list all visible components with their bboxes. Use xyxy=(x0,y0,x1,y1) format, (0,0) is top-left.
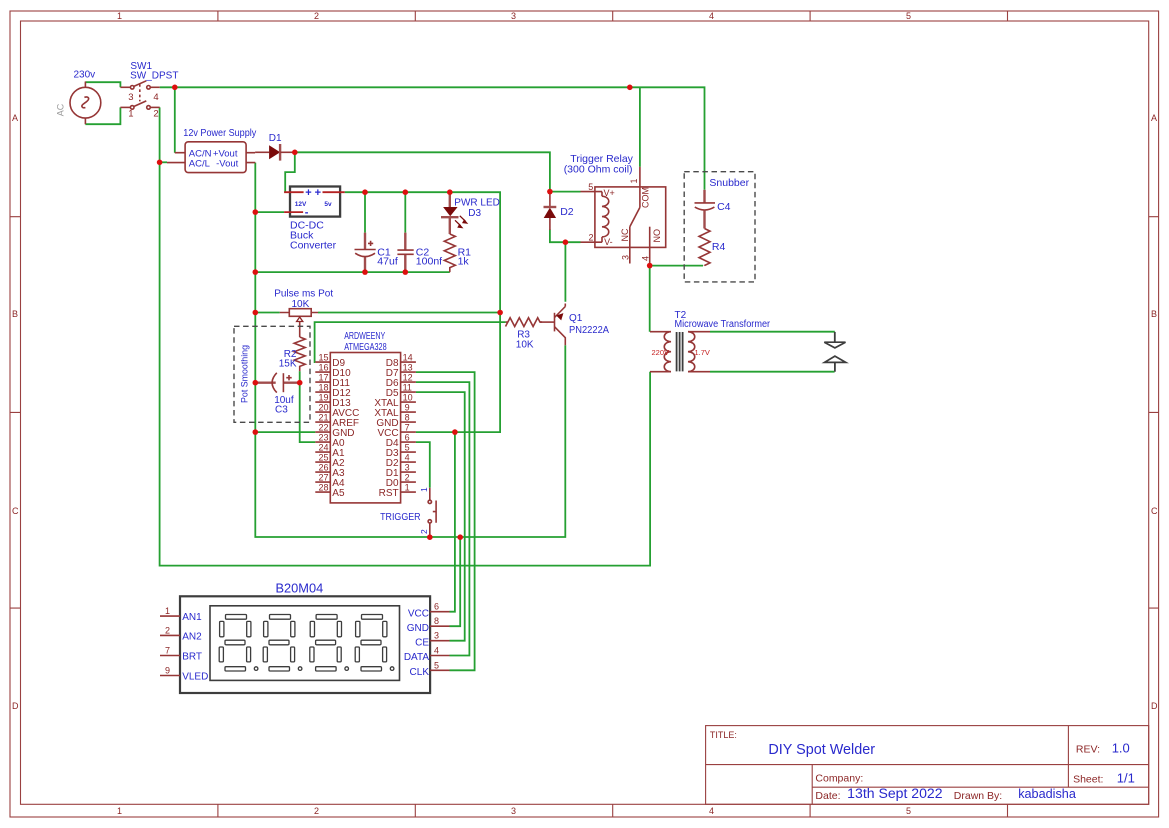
capacitor C4 xyxy=(695,190,731,229)
wire relay V+ stub xyxy=(550,191,581,193)
svg-text:1: 1 xyxy=(117,806,122,816)
welding electrode bottom xyxy=(825,356,846,372)
svg-text:3: 3 xyxy=(128,92,133,103)
svg-text:C: C xyxy=(12,506,19,516)
wire gnd rail to display GND xyxy=(450,537,461,626)
svg-text:D: D xyxy=(12,701,19,711)
svg-text:10: 10 xyxy=(403,393,413,403)
junction relay V- / Q1 collector node xyxy=(563,239,569,245)
svg-text:1.7V: 1.7V xyxy=(695,348,710,357)
svg-text:14: 14 xyxy=(403,353,413,363)
svg-text:24: 24 xyxy=(318,443,328,453)
sheet column labels bottom xyxy=(117,806,911,816)
svg-text:-: - xyxy=(305,207,309,219)
svg-text:Pot Smoothing: Pot Smoothing xyxy=(240,345,251,403)
potentiometer Pulse ms Pot 10K xyxy=(274,289,333,337)
svg-text:GND: GND xyxy=(407,623,429,634)
svg-text:7: 7 xyxy=(165,646,170,656)
svg-text:D: D xyxy=(1151,701,1158,711)
resistor R1 1k xyxy=(444,234,471,272)
svg-text:22: 22 xyxy=(318,423,328,433)
svg-text:8: 8 xyxy=(434,616,439,626)
AC source 230v xyxy=(55,70,100,125)
svg-text:2: 2 xyxy=(419,529,429,534)
svg-text:3: 3 xyxy=(434,631,439,641)
svg-text:VLED: VLED xyxy=(182,672,208,683)
svg-text:5v: 5v xyxy=(324,201,332,208)
svg-text:A5: A5 xyxy=(332,488,345,499)
wire D2 anode to relay V- and Q1 collector xyxy=(550,230,581,302)
svg-text:4: 4 xyxy=(153,92,158,103)
diode D2 xyxy=(544,193,574,230)
capacitor C3 10uf xyxy=(255,373,299,416)
svg-text:4: 4 xyxy=(405,453,410,463)
svg-text:12V: 12V xyxy=(295,201,307,208)
svg-text:15K: 15K xyxy=(279,358,297,369)
svg-text:ARDWEENY: ARDWEENY xyxy=(344,331,385,342)
svg-text:7: 7 xyxy=(405,423,410,433)
sheet border column ticks top xyxy=(218,11,1008,21)
svg-text:9: 9 xyxy=(165,666,170,676)
wire top rail to PSU AC/N xyxy=(174,87,176,152)
svg-text:1: 1 xyxy=(165,606,170,616)
svg-text:Pulse ms Pot: Pulse ms Pot xyxy=(274,289,333,300)
junction GND pin22 rail xyxy=(253,429,259,435)
svg-text:1.0: 1.0 xyxy=(1112,741,1130,756)
wire trigger pin2 junction on gnd rail xyxy=(429,535,431,537)
svg-text:10K: 10K xyxy=(516,339,534,350)
svg-text:AN1: AN1 xyxy=(182,612,202,623)
sheet row labels left xyxy=(12,113,19,711)
svg-text:1: 1 xyxy=(128,109,133,120)
svg-text:17: 17 xyxy=(318,373,328,383)
junction 5V rail at LED D3 xyxy=(447,189,453,195)
junction pot right 5V node xyxy=(497,310,503,316)
svg-text:BRT: BRT xyxy=(182,652,202,663)
Snubber dashed box xyxy=(684,172,755,282)
svg-text:Company:: Company: xyxy=(815,773,863,785)
welding electrode top xyxy=(824,332,845,348)
svg-text:4: 4 xyxy=(641,256,651,261)
svg-text:16: 16 xyxy=(318,363,328,373)
svg-text:PN2222A: PN2222A xyxy=(569,325,609,336)
wire D5 pin to display CE xyxy=(416,392,465,641)
wire D9 pin to R3 xyxy=(315,322,506,362)
svg-text:COM: COM xyxy=(641,187,651,208)
junction display GND on rail xyxy=(457,534,463,540)
12v power supply module xyxy=(167,128,256,173)
svg-text:11: 11 xyxy=(403,383,412,393)
svg-text:6: 6 xyxy=(405,433,410,443)
sheet column labels top xyxy=(117,11,911,21)
junction top rail / AC-N drop xyxy=(172,85,178,91)
svg-text:25: 25 xyxy=(318,453,328,463)
display U2 B20M04 xyxy=(180,581,430,693)
svg-text:4: 4 xyxy=(709,806,714,816)
wire relay NO to snubber bottom xyxy=(650,265,703,267)
IC U1 ARDWEENY ATMEGA328 xyxy=(330,331,400,503)
svg-text:2: 2 xyxy=(165,625,170,635)
wire D1 output 12V rail to relay xyxy=(295,152,550,191)
junction pot left node xyxy=(253,310,259,316)
svg-text:Converter: Converter xyxy=(290,239,337,251)
svg-text:ATMEGA328: ATMEGA328 xyxy=(344,342,387,353)
svg-text:3: 3 xyxy=(405,463,410,473)
svg-text:AN2: AN2 xyxy=(182,631,202,642)
svg-text:2: 2 xyxy=(314,11,319,21)
junction VCC rail display branch xyxy=(452,429,458,435)
junction 5V rail at C2 xyxy=(403,189,409,195)
svg-text:26: 26 xyxy=(318,463,328,473)
DC-DC buck converter module xyxy=(284,187,345,252)
svg-text:DATA: DATA xyxy=(404,652,430,663)
svg-text:C: C xyxy=(1151,506,1158,516)
wire AC source to SW1 pin1 xyxy=(85,107,120,124)
svg-text:5: 5 xyxy=(588,182,593,192)
sheet border row ticks left/right xyxy=(10,217,1159,608)
junction gnd rail left xyxy=(253,269,259,275)
svg-text:5: 5 xyxy=(906,11,911,21)
sheet row labels right xyxy=(1151,113,1158,711)
svg-text:A: A xyxy=(1151,113,1157,123)
transistor Q1 PN2222A xyxy=(540,304,609,346)
svg-text:1: 1 xyxy=(405,483,410,493)
svg-text:3: 3 xyxy=(621,255,631,260)
svg-text:230v: 230v xyxy=(74,70,96,81)
svg-text:21: 21 xyxy=(318,413,328,423)
junction C3 left node xyxy=(253,380,259,386)
wire pot right to 5V vertical xyxy=(318,312,500,314)
svg-text:8: 8 xyxy=(405,413,410,423)
svg-text:+ +: + + xyxy=(305,187,321,199)
svg-text:1/1: 1/1 xyxy=(1117,771,1135,786)
svg-text:2: 2 xyxy=(153,109,158,120)
svg-text:Sheet:: Sheet: xyxy=(1073,773,1103,785)
svg-text:VCC: VCC xyxy=(408,608,429,619)
resistor R2 15K xyxy=(279,337,305,383)
wire D6 pin to display DATA xyxy=(416,382,470,655)
IC U1 right pins 14-1 xyxy=(374,353,416,499)
junction 5V rail at C1 xyxy=(362,189,368,195)
transformer T2 Microwave Transformer xyxy=(650,310,771,372)
sheet border column ticks bottom xyxy=(218,804,1008,817)
wire -Vout vertical down to gnd rail and up Q1 emitter xyxy=(255,163,565,537)
wire 5V rail DC-DC out to pot and VCC xyxy=(345,192,500,432)
svg-text:CE: CE xyxy=(415,637,429,648)
junction AC/L neutral node xyxy=(157,160,163,166)
svg-text:R4: R4 xyxy=(712,241,726,253)
junction gnd rail at C2 xyxy=(403,269,409,275)
junction R2/C3/A0 node xyxy=(297,380,303,386)
wire net L1 top rail SW1 pin4 to snubber corner xyxy=(160,87,705,190)
svg-text:TRIGGER: TRIGGER xyxy=(380,512,421,523)
wire GND pin22 to -V rail xyxy=(255,431,315,433)
svg-text:47uf: 47uf xyxy=(377,256,398,268)
svg-text:C4: C4 xyxy=(717,201,731,213)
wire AC source to SW1 pin3 xyxy=(85,82,120,87)
LED D3 PWR LED xyxy=(441,192,500,234)
wire SW1 pin2 down to AC/L and neutral rail to transformer xyxy=(160,107,650,565)
title block frame xyxy=(706,726,1149,805)
svg-text:4: 4 xyxy=(434,646,439,656)
svg-text:D2: D2 xyxy=(560,206,574,218)
svg-text:100nf: 100nf xyxy=(416,256,442,268)
resistor R3 10K xyxy=(506,318,543,351)
junction DC-DC minus node xyxy=(253,209,259,215)
svg-text:DIY Spot Welder: DIY Spot Welder xyxy=(768,741,875,758)
wire D4 pin to trigger switch xyxy=(416,442,430,488)
junction relay V+ / D2 node xyxy=(547,189,553,195)
svg-text:2: 2 xyxy=(405,473,410,483)
pushbutton TRIGGER xyxy=(380,487,436,537)
svg-text:1: 1 xyxy=(419,487,429,492)
display left pins AN1 AN2 BRT VLED xyxy=(160,606,208,682)
svg-text:3: 3 xyxy=(511,806,516,816)
svg-text:12v Power Supply: 12v Power Supply xyxy=(183,128,256,139)
wire top rail to relay COM xyxy=(639,87,641,167)
diode D1 xyxy=(255,133,295,161)
svg-text:D1: D1 xyxy=(269,133,282,144)
svg-text:2: 2 xyxy=(314,806,319,816)
svg-text:REV:: REV: xyxy=(1076,743,1100,755)
junction D1 cathode 12V node xyxy=(292,150,298,156)
svg-text:Snubber: Snubber xyxy=(709,177,749,189)
switch SW1 SW_DPST xyxy=(120,61,178,120)
svg-text:B20M04: B20M04 xyxy=(276,581,324,595)
svg-text:13: 13 xyxy=(403,363,413,373)
svg-text:SW_DPST: SW_DPST xyxy=(130,71,178,82)
svg-text:19: 19 xyxy=(318,393,328,403)
wire C1 top xyxy=(364,192,366,232)
svg-text:C3: C3 xyxy=(275,405,288,416)
svg-text:TITLE:: TITLE: xyxy=(710,730,737,740)
capacitor C2 100nf xyxy=(397,233,442,273)
svg-text:6: 6 xyxy=(434,602,439,612)
svg-text:A: A xyxy=(12,113,18,123)
svg-text:B: B xyxy=(1151,309,1157,319)
resistor R4 xyxy=(699,229,725,266)
svg-text:RST: RST xyxy=(379,488,399,499)
svg-text:12: 12 xyxy=(403,373,413,383)
wire AC/L junction stub xyxy=(160,161,167,163)
svg-text:3: 3 xyxy=(511,11,516,21)
wire DC-DC minus input xyxy=(255,211,284,213)
junction top rail at relay COM xyxy=(627,85,633,91)
svg-text:AC: AC xyxy=(55,103,65,116)
wire VCC rail to display VCC xyxy=(450,432,455,612)
svg-text:Microwave Transformer: Microwave Transformer xyxy=(675,319,771,330)
svg-text:B: B xyxy=(12,309,18,319)
svg-text:Date:: Date: xyxy=(815,790,840,802)
svg-text:-Vout: -Vout xyxy=(216,158,239,169)
svg-text:18: 18 xyxy=(318,383,328,393)
svg-text:2: 2 xyxy=(589,233,594,243)
capacitor C1 47uf xyxy=(355,233,398,273)
junction gnd rail at C1 xyxy=(362,269,368,275)
svg-text:(300 Ohm coil): (300 Ohm coil) xyxy=(564,164,633,176)
junction trigger pin2 on rail xyxy=(427,534,433,540)
svg-text:9: 9 xyxy=(405,403,410,413)
Pot Smoothing dashed box xyxy=(234,326,310,422)
svg-text:5: 5 xyxy=(906,806,911,816)
wire D7 pin to display CLK xyxy=(416,372,475,670)
svg-text:27: 27 xyxy=(318,473,328,483)
svg-text:23: 23 xyxy=(318,433,328,443)
svg-text:Drawn By:: Drawn By: xyxy=(954,790,1002,802)
svg-text:28: 28 xyxy=(318,483,328,493)
svg-text:15: 15 xyxy=(318,353,328,363)
wire pot left to -V rail xyxy=(255,312,279,314)
display right pins VCC GND CE DATA CLK xyxy=(404,602,450,678)
display 7-segment digits xyxy=(219,615,394,672)
junction relay NO / snubber / transformer xyxy=(647,263,653,269)
svg-text:1k: 1k xyxy=(458,256,470,268)
svg-text:20: 20 xyxy=(318,403,328,413)
svg-text:D3: D3 xyxy=(468,208,481,219)
svg-text:NO: NO xyxy=(652,229,662,243)
svg-text:Q1: Q1 xyxy=(569,313,583,324)
svg-text:V+: V+ xyxy=(604,188,615,198)
svg-text:V-: V- xyxy=(604,237,613,247)
svg-text:5: 5 xyxy=(434,660,439,670)
svg-text:5: 5 xyxy=(405,443,410,453)
svg-text:13th Sept 2022: 13th Sept 2022 xyxy=(847,786,942,801)
wire relay NO to transformer primary top xyxy=(649,266,651,332)
wire D1 output to DC-DC +12V input xyxy=(285,152,295,192)
wire gnd bottom rail C1 C2 R1 xyxy=(255,271,449,273)
wire transformer secondary bottom to electrode xyxy=(710,371,835,373)
svg-text:1: 1 xyxy=(629,178,639,183)
IC U1 left pins 15-28 xyxy=(315,353,359,499)
wire transformer secondary top to electrode xyxy=(710,331,835,333)
svg-text:NC: NC xyxy=(620,228,630,241)
relay K1 Trigger Relay xyxy=(564,153,666,265)
wire C2 top xyxy=(404,192,406,232)
svg-text:AC/L: AC/L xyxy=(189,158,210,169)
svg-text:kabadisha: kabadisha xyxy=(1018,786,1076,801)
wire R2/C3 node to A0 pin xyxy=(300,383,316,442)
svg-text:4: 4 xyxy=(709,11,714,21)
svg-text:CLK: CLK xyxy=(410,667,430,678)
svg-text:1: 1 xyxy=(117,11,122,21)
svg-text:220V: 220V xyxy=(652,348,670,357)
